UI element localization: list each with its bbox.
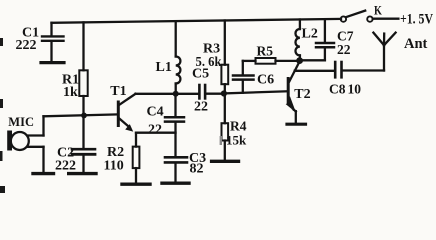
capacitor C5	[176, 85, 224, 98]
label C3 value 82	[189, 151, 206, 177]
label C1 value 222	[16, 26, 40, 54]
wire bias node to T2 base	[224, 91, 287, 93]
node junction R1/C2/base	[81, 113, 87, 119]
ground	[162, 181, 189, 184]
svg-text:L1: L1	[156, 60, 172, 75]
label L2	[302, 27, 318, 42]
antenna Ant	[373, 33, 395, 71]
wire top supply rail	[52, 19, 342, 23]
ground	[212, 160, 239, 163]
label R5	[257, 44, 274, 59]
svg-text:+1. 5V: +1. 5V	[400, 12, 433, 28]
capacitor C4	[165, 94, 184, 156]
label Ant	[404, 36, 428, 52]
svg-text:22: 22	[194, 100, 208, 115]
svg-text:L2: L2	[302, 27, 318, 42]
label C7 value 22	[337, 29, 354, 58]
svg-text:R5: R5	[257, 44, 274, 59]
label C4 value 22	[147, 105, 164, 138]
svg-text:1k: 1k	[63, 85, 78, 100]
label T2	[294, 87, 310, 102]
resistor R5	[243, 58, 297, 64]
scan edge artifacts	[0, 38, 5, 193]
svg-text:15k: 15k	[226, 133, 247, 148]
resistor R2	[133, 133, 140, 183]
ground	[122, 182, 150, 185]
ground	[287, 123, 306, 126]
node junction L2/C7/R5/collector	[296, 57, 303, 64]
svg-text:5. 6k: 5. 6k	[196, 55, 222, 70]
svg-text:R4: R4	[230, 119, 247, 134]
svg-text:T2: T2	[294, 87, 310, 102]
capacitor C8	[295, 62, 384, 77]
switch K	[341, 11, 399, 22]
label K	[374, 3, 382, 17]
wire T1 collector to L1 node	[136, 93, 176, 95]
label R4 value 1.5k	[220, 136, 222, 145]
svg-text:82: 82	[190, 162, 204, 177]
inductor L1	[176, 21, 181, 94]
label C8 value 10	[329, 82, 361, 97]
label C5 value 22	[192, 67, 209, 115]
svg-text:MIC: MIC	[8, 115, 34, 129]
svg-text:222: 222	[16, 38, 37, 53]
label T1	[110, 84, 126, 99]
label +1.5V supply	[400, 12, 433, 28]
label R3 value 5.6k	[196, 42, 222, 71]
ground	[41, 61, 64, 64]
node junction L1/collector/C4/C5	[173, 91, 179, 97]
ground	[33, 172, 54, 175]
capacitor C6	[233, 61, 254, 93]
svg-text:C4: C4	[147, 105, 164, 120]
microphone MIC	[7, 116, 43, 172]
svg-text:110: 110	[104, 159, 124, 174]
svg-text:22: 22	[337, 42, 351, 57]
resistor R1	[79, 22, 87, 115]
label MIC	[8, 115, 34, 129]
label C6	[257, 73, 274, 88]
node junction R3/R4/C5	[221, 90, 227, 96]
transistor T2	[286, 62, 300, 123]
svg-text:222: 222	[55, 159, 76, 174]
svg-text:T1: T1	[110, 84, 126, 99]
wire T1 emitter to C4/C3 column	[136, 132, 176, 134]
resistor R3	[221, 21, 228, 94]
inductor L2	[295, 20, 299, 61]
svg-text:C8: C8	[329, 82, 346, 97]
label R2 value 110	[104, 145, 125, 174]
capacitor C3	[165, 157, 187, 181]
capacitor C7	[300, 19, 334, 60]
transistor T1	[118, 94, 135, 132]
label C2 value 222	[55, 146, 76, 174]
svg-text:10: 10	[348, 82, 362, 97]
svg-text:22: 22	[148, 123, 162, 138]
wire base bus from MIC to T1	[44, 114, 118, 116]
capacitor C2	[72, 115, 95, 172]
ground	[69, 172, 96, 175]
svg-text:K: K	[374, 3, 382, 17]
svg-text:Ant: Ant	[404, 36, 428, 52]
label R1 value 1k	[62, 73, 79, 101]
capacitor C1	[42, 23, 64, 61]
label L1	[156, 60, 172, 75]
svg-text:C6: C6	[257, 73, 274, 88]
resistor R4	[222, 94, 229, 160]
